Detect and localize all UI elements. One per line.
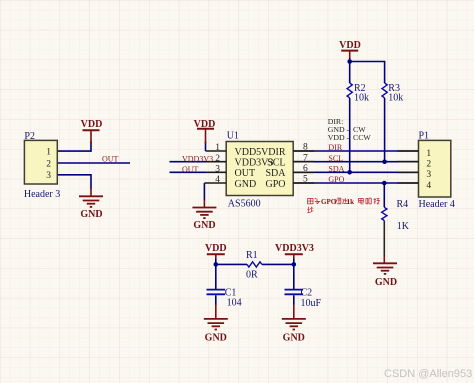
svg-text:R4: R4 [397, 199, 409, 210]
svg-text:4: 4 [426, 181, 431, 191]
svg-text:CSDN @Allen953: CSDN @Allen953 [384, 368, 472, 380]
svg-text:GND: GND [80, 209, 102, 220]
svg-text:DIR: DIR [268, 147, 286, 158]
svg-text:C2: C2 [301, 287, 313, 298]
svg-text:Header 3: Header 3 [24, 189, 60, 200]
svg-text:104: 104 [227, 298, 242, 309]
svg-text:OUT: OUT [182, 165, 199, 174]
svg-text:10uF: 10uF [301, 298, 322, 309]
svg-text:VDD: VDD [81, 119, 103, 130]
svg-text:U1: U1 [227, 130, 239, 141]
svg-text:SCL: SCL [267, 158, 285, 169]
svg-text:P2: P2 [24, 131, 35, 142]
svg-text:8: 8 [303, 143, 308, 153]
svg-text:VDD: VDD [205, 243, 227, 254]
svg-text:GND: GND [193, 220, 215, 231]
svg-text:OUT: OUT [102, 155, 119, 164]
svg-text:2: 2 [426, 160, 431, 170]
svg-text:VDD3V3: VDD3V3 [275, 243, 314, 254]
svg-text:Header 4: Header 4 [419, 199, 455, 210]
svg-text:OUT: OUT [235, 168, 256, 179]
svg-text:10k: 10k [388, 93, 403, 104]
svg-text:R1: R1 [246, 250, 258, 261]
svg-text:1K: 1K [397, 221, 410, 232]
svg-text:AS5600: AS5600 [228, 199, 261, 210]
svg-text:P1: P1 [419, 131, 430, 142]
svg-text:2: 2 [215, 154, 220, 164]
svg-text:GPO: GPO [328, 175, 344, 184]
svg-text:VDD: VDD [194, 119, 216, 130]
svg-text:3: 3 [215, 164, 220, 174]
svg-text:5: 5 [303, 175, 308, 185]
svg-text:SCL: SCL [328, 154, 343, 163]
svg-text:VDD3V3: VDD3V3 [182, 155, 213, 164]
svg-text:1: 1 [46, 148, 51, 158]
svg-text:10k: 10k [354, 93, 369, 104]
svg-text:SDA: SDA [328, 164, 344, 173]
svg-text:SDA: SDA [265, 168, 286, 179]
svg-text:DIR: DIR [328, 143, 342, 152]
svg-text:VDD5V: VDD5V [235, 147, 270, 158]
svg-text:1k: 1k [347, 198, 355, 206]
svg-text:VDD - CCW: VDD - CCW [328, 133, 372, 142]
svg-text:GND: GND [205, 332, 227, 343]
svg-text:GND: GND [283, 332, 305, 343]
svg-text:0R: 0R [246, 270, 258, 281]
svg-text:2: 2 [46, 159, 51, 169]
svg-text:GND: GND [235, 179, 257, 190]
svg-text:GND: GND [375, 277, 397, 288]
svg-text:7: 7 [303, 153, 308, 163]
svg-text:1: 1 [215, 143, 220, 153]
svg-text:3: 3 [426, 170, 431, 180]
svg-text:VDD: VDD [339, 40, 361, 51]
svg-text:6: 6 [303, 164, 308, 174]
svg-text:GPO: GPO [321, 198, 337, 206]
svg-text:3: 3 [46, 171, 51, 181]
svg-text:1: 1 [426, 149, 431, 159]
svg-text:4: 4 [215, 175, 220, 185]
svg-text:GPO: GPO [265, 179, 285, 190]
